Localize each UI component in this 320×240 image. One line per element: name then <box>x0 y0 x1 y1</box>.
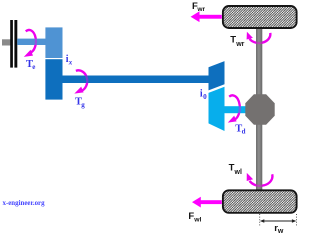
svg-text:wl: wl <box>234 169 242 176</box>
svg-text:wr: wr <box>196 6 205 13</box>
svg-text:e: e <box>32 63 35 71</box>
svg-text:d: d <box>242 128 246 136</box>
svg-text:0: 0 <box>203 93 207 101</box>
svg-text:x: x <box>68 59 73 67</box>
svg-text:x-engineer.org: x-engineer.org <box>3 200 46 207</box>
svg-text:wl: wl <box>193 216 201 223</box>
svg-text:w: w <box>277 228 284 235</box>
svg-text:g: g <box>81 101 85 109</box>
svg-text:wr: wr <box>235 41 244 48</box>
